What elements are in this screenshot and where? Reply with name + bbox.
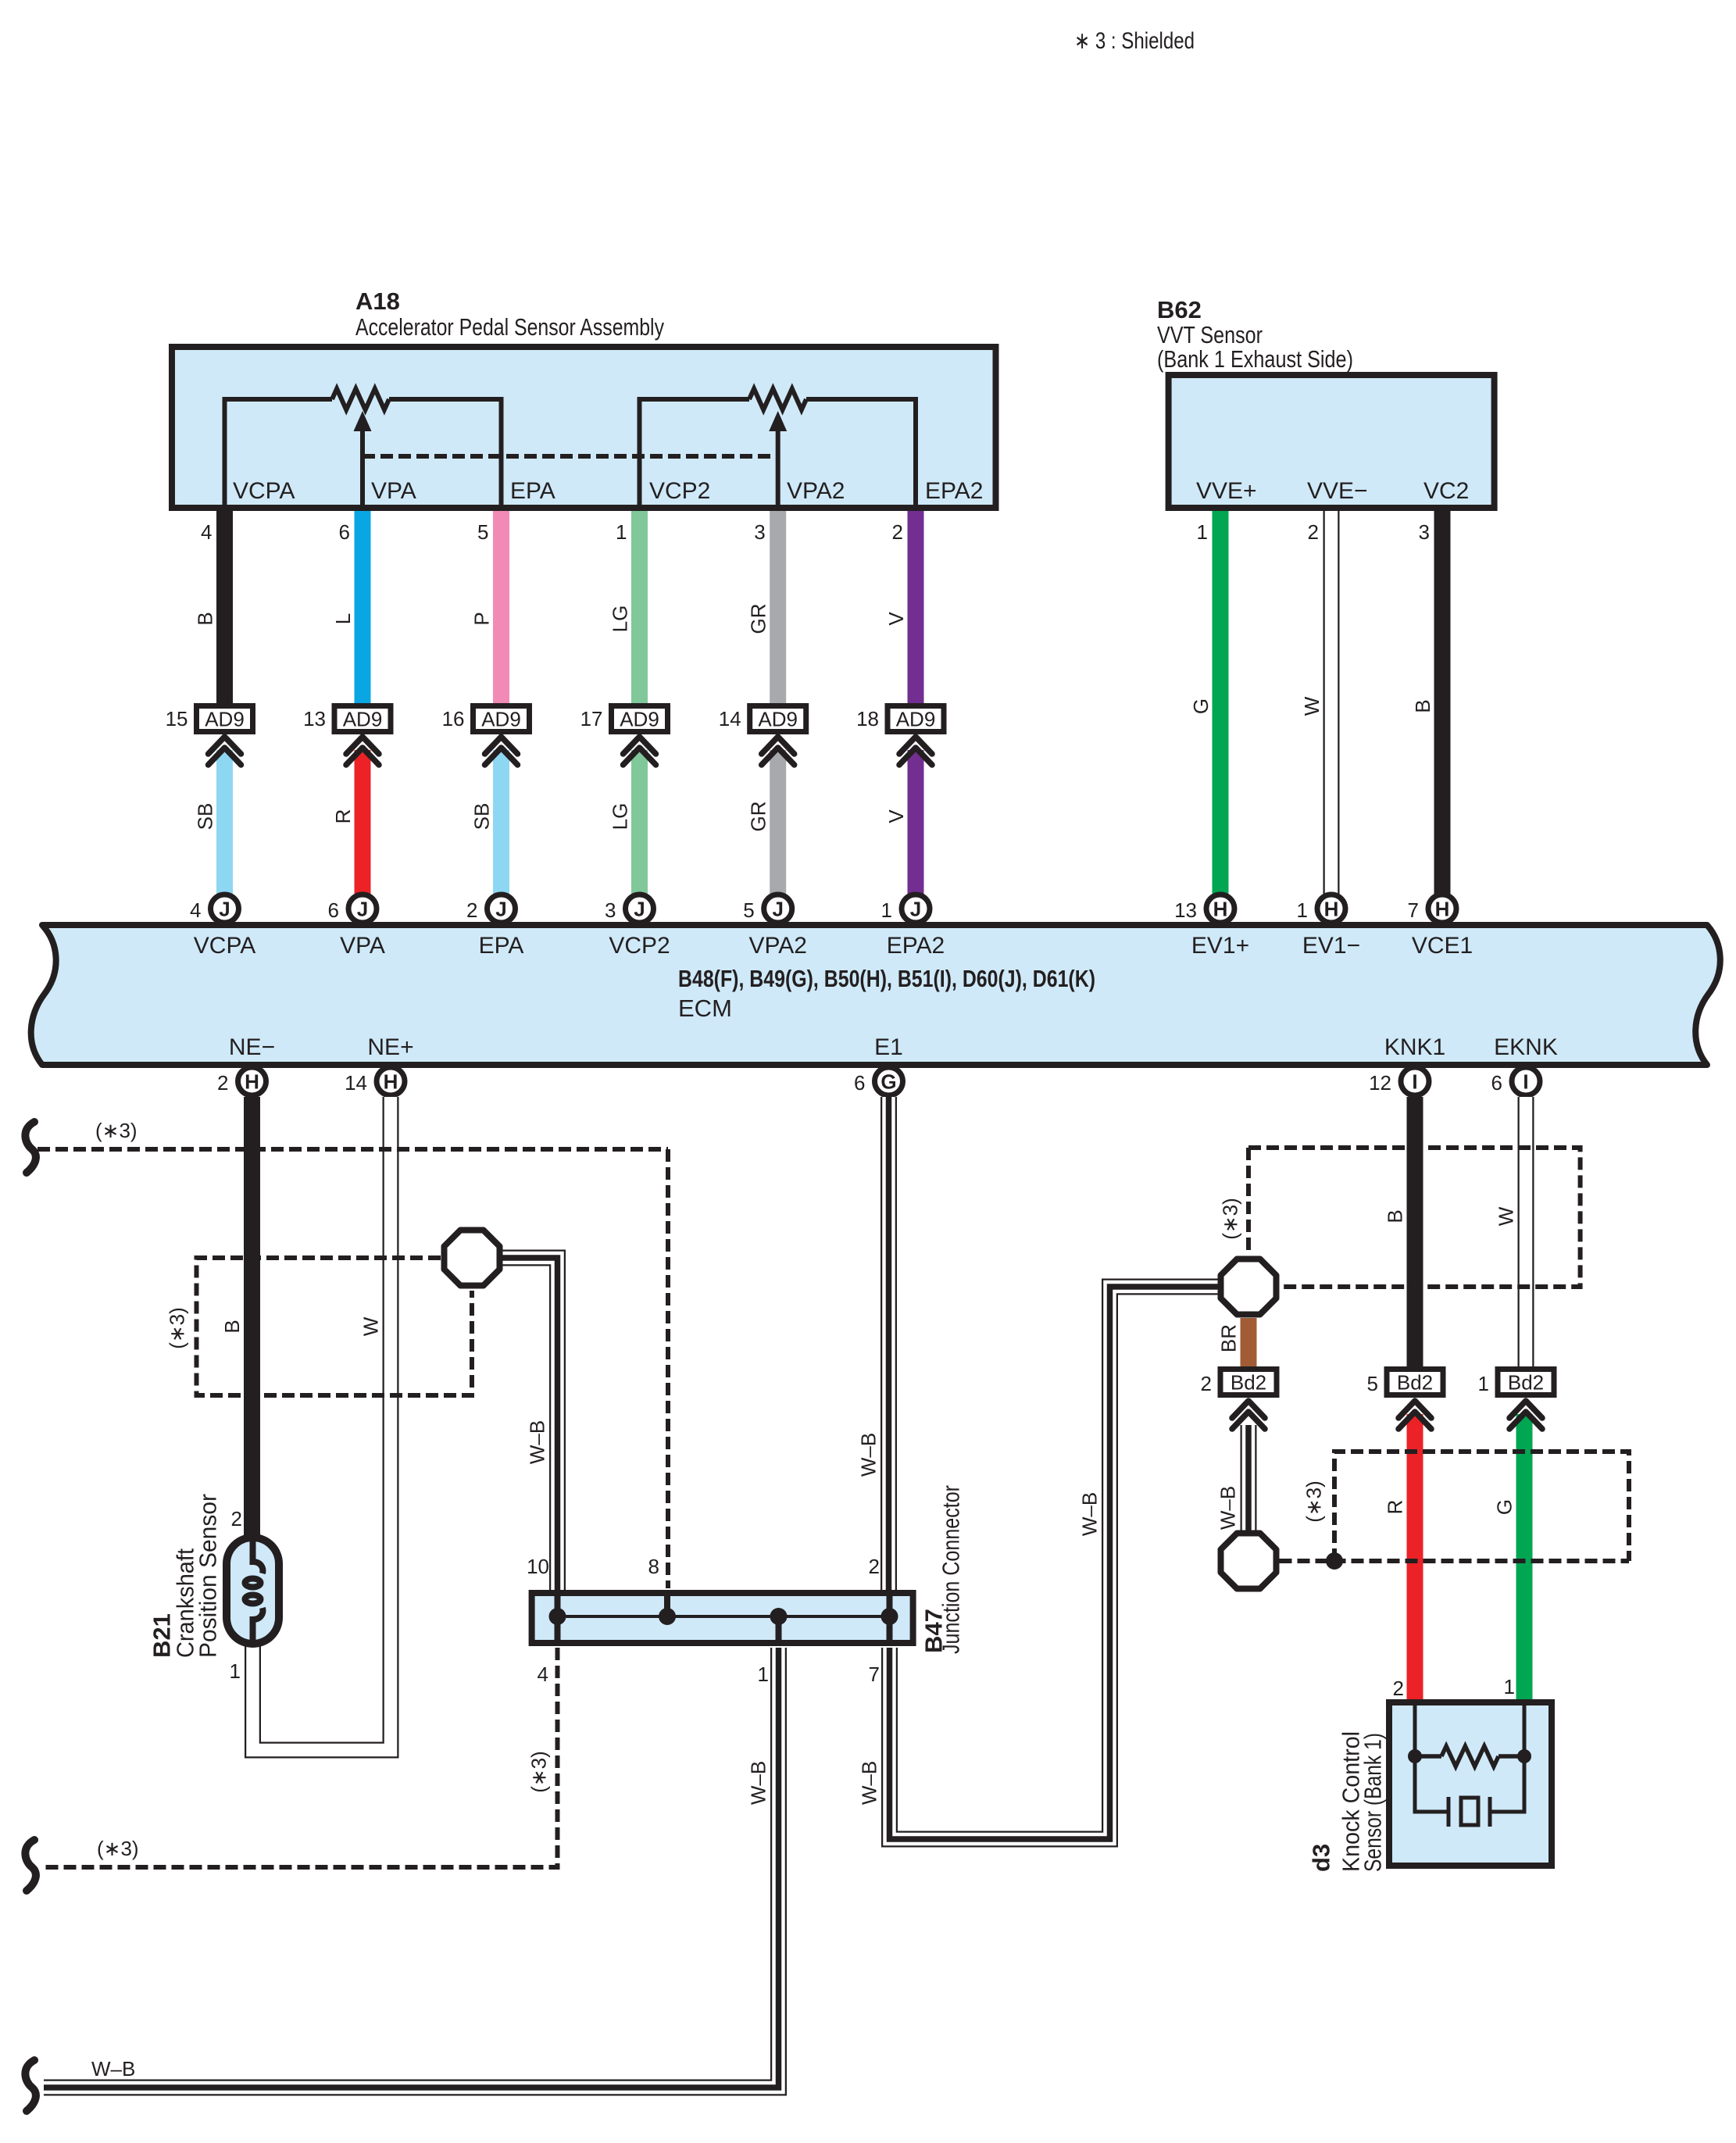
wire B NE- to crankshaft sensor: [244, 1097, 260, 1538]
B47 junction dot: [549, 1608, 566, 1625]
svg-text:VCP2: VCP2: [649, 478, 710, 504]
ECM terminal circle H pin 13: [1206, 895, 1234, 923]
wire SB to ECM: [493, 750, 509, 897]
svg-text:2: 2: [1308, 520, 1319, 544]
svg-text:W–B: W–B: [1216, 1486, 1240, 1530]
potentiometer 2 (VPA2) zigzag and loop: [640, 399, 750, 508]
svg-text:G: G: [1189, 698, 1213, 714]
ECM terminal circle J pin 5: [764, 895, 792, 923]
svg-text:H: H: [1213, 898, 1228, 921]
ECM bottom terminal circle H pin 2: [238, 1067, 266, 1095]
wire B from B62 pin 3: [1434, 511, 1451, 897]
svg-text:16: 16: [442, 707, 465, 730]
wire G from B62 pin 1: [1213, 511, 1229, 897]
svg-text:2: 2: [892, 520, 903, 544]
svg-text:8: 8: [648, 1555, 659, 1578]
knock sensor internal resistor: [1441, 1746, 1498, 1766]
svg-text:4: 4: [190, 898, 201, 922]
svg-text:EPA: EPA: [510, 478, 555, 504]
svg-text:Position Sensor: Position Sensor: [194, 1494, 221, 1658]
svg-text:H: H: [1435, 898, 1450, 921]
ECM terminal circle J pin 6: [348, 895, 377, 923]
svg-text:G: G: [1493, 1499, 1516, 1515]
svg-text:3: 3: [754, 520, 765, 544]
svg-text:Bd2: Bd2: [1508, 1371, 1544, 1395]
knock sensor internal leads: [1413, 1702, 1417, 1752]
shield dashed line (*3) top left: [25, 1122, 36, 1173]
shield dashed drop to B47 pin 8: [666, 1149, 670, 1588]
svg-text:E1: E1: [874, 1034, 903, 1060]
svg-text:13: 13: [303, 707, 326, 730]
wire SB to ECM: [216, 750, 233, 897]
svg-text:(Bank 1 Exhaust Side): (Bank 1 Exhaust Side): [1157, 345, 1353, 373]
svg-text:(∗3): (∗3): [95, 1119, 138, 1142]
svg-text:3: 3: [605, 898, 616, 922]
connector AD9 pin 14: [750, 706, 806, 732]
svg-text:EV1+: EV1+: [1191, 933, 1249, 959]
ECM bottom terminal circle G pin 6: [875, 1067, 903, 1095]
knock shield connector octagon (lower): [1221, 1534, 1277, 1589]
svg-text:6: 6: [328, 898, 339, 922]
svg-text:VPA: VPA: [340, 933, 385, 959]
ECM terminal circle J pin 1: [902, 895, 930, 923]
svg-text:EPA2: EPA2: [887, 933, 945, 959]
svg-text:H: H: [384, 1070, 398, 1094]
shield dashed from B47 pin 4: [43, 1648, 558, 1867]
svg-text:VPA2: VPA2: [787, 478, 845, 504]
svg-text:VC2: VC2: [1423, 478, 1469, 504]
svg-text:L: L: [331, 613, 355, 624]
wire V to ECM: [908, 750, 924, 897]
svg-text:4: 4: [538, 1663, 548, 1686]
B47 Junction Connector box: [532, 1593, 913, 1643]
svg-text:W: W: [1495, 1206, 1518, 1226]
svg-text:1: 1: [881, 898, 892, 922]
svg-text:5: 5: [477, 520, 488, 544]
svg-text:ECM: ECM: [678, 995, 732, 1022]
svg-text:LG: LG: [609, 605, 632, 633]
svg-text:V: V: [884, 612, 908, 626]
ECM terminal circle H pin 1: [1317, 895, 1345, 923]
connector AD9 pin 13: [334, 706, 391, 732]
svg-text:AD9: AD9: [343, 708, 383, 731]
svg-text:4: 4: [201, 520, 212, 544]
shield dashed box around B and W (knock): [1248, 1148, 1581, 1287]
svg-text:B: B: [1411, 699, 1434, 713]
svg-text:18: 18: [856, 707, 879, 730]
svg-text:∗ 3 : Shielded: ∗ 3 : Shielded: [1074, 28, 1195, 54]
svg-text:VVE+: VVE+: [1196, 478, 1257, 504]
B21 Crankshaft Position Sensor body: [227, 1538, 279, 1644]
svg-text:1: 1: [1197, 520, 1208, 544]
svg-text:Accelerator Pedal Sensor Assem: Accelerator Pedal Sensor Assembly: [355, 313, 664, 341]
svg-text:VCPA: VCPA: [194, 933, 255, 959]
svg-text:B: B: [1384, 1209, 1407, 1223]
svg-text:VPA: VPA: [371, 478, 416, 504]
svg-text:6: 6: [1491, 1071, 1502, 1095]
svg-text:GR: GR: [747, 604, 770, 634]
wire R to ECM: [355, 750, 371, 897]
connector AD9 pin 15: [197, 706, 253, 732]
svg-text:VVE−: VVE−: [1307, 478, 1368, 504]
svg-text:AD9: AD9: [896, 708, 936, 731]
svg-text:P: P: [470, 612, 494, 625]
svg-text:17: 17: [580, 707, 603, 730]
svg-text:VCE1: VCE1: [1412, 933, 1473, 959]
svg-text:B: B: [194, 612, 217, 625]
ECM terminal circle J pin 3: [626, 895, 654, 923]
svg-text:EPA2: EPA2: [925, 478, 984, 504]
svg-text:(∗3): (∗3): [1302, 1480, 1326, 1523]
svg-text:AD9: AD9: [620, 708, 659, 731]
svg-text:(∗3): (∗3): [97, 1837, 139, 1860]
svg-text:AD9: AD9: [758, 708, 798, 731]
ECM bottom terminal circle I pin 12: [1401, 1067, 1429, 1095]
wire W-B from Bd2 pin 2 to lower shield connector: [1241, 1425, 1257, 1531]
wire W from ECM EKNK: [1518, 1097, 1534, 1369]
svg-text:SB: SB: [470, 803, 494, 830]
ECM block: [31, 925, 1720, 1065]
svg-text:Bd2: Bd2: [1231, 1371, 1266, 1395]
shield dashed box around B and W wires: [197, 1258, 473, 1395]
svg-text:I: I: [1523, 1070, 1528, 1094]
svg-text:GR: GR: [747, 802, 770, 832]
svg-text:VVT Sensor: VVT Sensor: [1157, 321, 1263, 348]
knock sensor piezo element: [1415, 1756, 1448, 1812]
wire P from A18 pin 5: [493, 511, 509, 705]
svg-text:10: 10: [527, 1555, 549, 1578]
wire LG to ECM: [631, 750, 648, 897]
svg-text:W–B: W–B: [858, 1761, 881, 1805]
wire W-B from B47 pin 7 to knock shield connector: [890, 1287, 1220, 1839]
svg-text:R: R: [331, 809, 355, 824]
svg-text:15: 15: [166, 707, 188, 730]
svg-text:J: J: [219, 898, 230, 921]
svg-text:J: J: [357, 898, 368, 921]
svg-text:6: 6: [339, 520, 350, 544]
shield junction dot: [1326, 1552, 1343, 1570]
wire B from A18 pin 4: [216, 511, 233, 705]
svg-text:SB: SB: [194, 803, 217, 830]
svg-text:BR: BR: [1217, 1324, 1241, 1352]
svg-text:VCPA: VCPA: [233, 478, 295, 504]
svg-text:W–B: W–B: [91, 2057, 135, 2080]
svg-text:1: 1: [616, 520, 627, 544]
svg-text:I: I: [1412, 1070, 1417, 1094]
svg-text:1: 1: [230, 1659, 241, 1683]
svg-text:H: H: [1324, 898, 1339, 921]
wire GR from A18 pin 3: [770, 511, 786, 705]
wire B from ECM KNK1: [1407, 1097, 1423, 1369]
shield dashed line from lower octagon: [1280, 1559, 1630, 1563]
svg-text:2: 2: [1393, 1677, 1404, 1700]
svg-text:1: 1: [1504, 1675, 1515, 1698]
svg-text:AD9: AD9: [481, 708, 521, 731]
svg-text:VPA2: VPA2: [748, 933, 807, 959]
connector AD9 pin 16: [473, 706, 530, 732]
svg-text:W–B: W–B: [857, 1433, 881, 1477]
potentiometer 1 wiper arrow (VPA): [360, 428, 365, 508]
connector Bd2 pin 5: [1387, 1370, 1443, 1395]
ECM terminal circle J pin 2: [488, 895, 516, 923]
connector Bd2 pin 1: [1498, 1370, 1554, 1395]
potentiometer 1 (VPA) zigzag and loop: [225, 399, 333, 508]
svg-text:NE−: NE−: [229, 1034, 275, 1060]
connector AD9 pin 17: [612, 706, 668, 732]
svg-text:NE+: NE+: [367, 1034, 413, 1060]
ECM terminal circle H pin 7: [1428, 895, 1456, 923]
svg-text:14: 14: [719, 707, 741, 730]
svg-text:d3: d3: [1307, 1844, 1334, 1872]
svg-text:W–B: W–B: [747, 1761, 770, 1805]
wire G to knock sensor: [1516, 1414, 1533, 1702]
svg-text:J: J: [495, 898, 506, 921]
wire R to knock sensor: [1407, 1414, 1423, 1702]
svg-text:J: J: [772, 898, 783, 921]
wire W from B62 pin 2: [1323, 511, 1340, 897]
B47 junction dot: [881, 1608, 898, 1625]
crankshaft sensor coil: [253, 1538, 263, 1573]
svg-text:5: 5: [1367, 1372, 1378, 1395]
knock shield connector octagon (upper): [1221, 1259, 1277, 1315]
svg-text:2: 2: [466, 898, 477, 922]
svg-text:Bd2: Bd2: [1397, 1371, 1433, 1395]
svg-text:(∗3): (∗3): [166, 1307, 189, 1349]
wire GR to ECM: [770, 750, 786, 897]
B62 VVT Sensor box: [1169, 375, 1495, 508]
svg-text:KNK1: KNK1: [1384, 1034, 1445, 1060]
svg-text:1: 1: [1297, 898, 1308, 922]
svg-text:2: 2: [231, 1507, 242, 1530]
svg-text:AD9: AD9: [205, 708, 245, 731]
svg-text:B62: B62: [1157, 296, 1202, 323]
svg-text:7: 7: [1408, 898, 1419, 922]
wire W-B from shield connector to B47 pin 10: [501, 1258, 558, 1591]
svg-text:EPA: EPA: [479, 933, 524, 959]
svg-text:EKNK: EKNK: [1494, 1034, 1558, 1060]
svg-text:3: 3: [1419, 520, 1430, 544]
wire LG from A18 pin 1: [631, 511, 648, 705]
svg-text:2: 2: [869, 1555, 880, 1578]
svg-text:J: J: [910, 898, 921, 921]
svg-text:(∗3): (∗3): [527, 1751, 551, 1793]
svg-text:LG: LG: [609, 803, 632, 830]
svg-text:VCP2: VCP2: [609, 933, 670, 959]
svg-text:W–B: W–B: [1078, 1492, 1102, 1536]
Bd2 chevrons: [1232, 1401, 1265, 1418]
svg-text:14: 14: [345, 1071, 367, 1095]
svg-text:1: 1: [758, 1663, 769, 1686]
svg-text:H: H: [245, 1070, 259, 1094]
svg-text:EV1−: EV1−: [1302, 933, 1360, 959]
B47 bus line: [558, 1615, 890, 1618]
svg-text:A18: A18: [355, 288, 400, 315]
ECM terminal circle J pin 4: [211, 895, 239, 923]
svg-text:J: J: [634, 898, 645, 921]
svg-text:V: V: [884, 809, 908, 823]
potentiometer 2 wiper arrow (VPA2): [776, 428, 780, 508]
dashed wiper link: [363, 454, 778, 459]
svg-text:Sensor (Bank 1): Sensor (Bank 1): [1359, 1733, 1386, 1872]
svg-text:1: 1: [1478, 1372, 1489, 1395]
svg-text:W: W: [359, 1316, 383, 1336]
A18 Accelerator Pedal Sensor Assembly box: [172, 347, 996, 508]
svg-text:R: R: [1384, 1500, 1407, 1515]
wire W-B from B47 pin 1 to ground line: [44, 1648, 779, 2088]
wire W NE+ to crankshaft sensor (white): [253, 1097, 391, 1750]
B47 internal pin stubs: [555, 1593, 561, 1643]
connector Bd2 pin 2: [1220, 1370, 1277, 1395]
wire V from A18 pin 2: [908, 511, 924, 705]
svg-text:W: W: [1300, 696, 1323, 716]
svg-text:2: 2: [1201, 1372, 1212, 1395]
svg-text:13: 13: [1174, 898, 1197, 922]
svg-text:(∗3): (∗3): [1219, 1198, 1242, 1240]
svg-text:B: B: [220, 1320, 244, 1333]
svg-text:G: G: [881, 1070, 896, 1094]
B47 junction dot: [659, 1608, 676, 1625]
svg-text:7: 7: [869, 1663, 880, 1686]
shield dashed box around R and G: [1334, 1452, 1629, 1561]
wire W-B from ECM E1 to B47 pin 2: [881, 1097, 897, 1591]
d3 Knock Control Sensor box: [1389, 1702, 1552, 1866]
shield connector octagon (crankshaft): [445, 1230, 500, 1286]
svg-text:5: 5: [743, 898, 754, 922]
svg-text:B48(F), B49(G), B50(H), B51(I): B48(F), B49(G), B50(H), B51(I), D60(J), …: [678, 965, 1095, 992]
svg-text:Junction Connector: Junction Connector: [937, 1485, 964, 1654]
svg-text:W–B: W–B: [526, 1420, 549, 1464]
ECM bottom terminal circle I pin 6: [1512, 1067, 1540, 1095]
connector AD9 pin 18: [888, 706, 944, 732]
wire L from A18 pin 6: [355, 511, 371, 705]
svg-text:6: 6: [854, 1071, 865, 1095]
ECM bottom terminal circle H pin 14: [377, 1067, 405, 1095]
svg-text:2: 2: [217, 1071, 228, 1095]
wire BR shield drain: [1241, 1318, 1257, 1369]
B47 junction dot: [770, 1608, 788, 1625]
svg-text:12: 12: [1369, 1071, 1391, 1095]
